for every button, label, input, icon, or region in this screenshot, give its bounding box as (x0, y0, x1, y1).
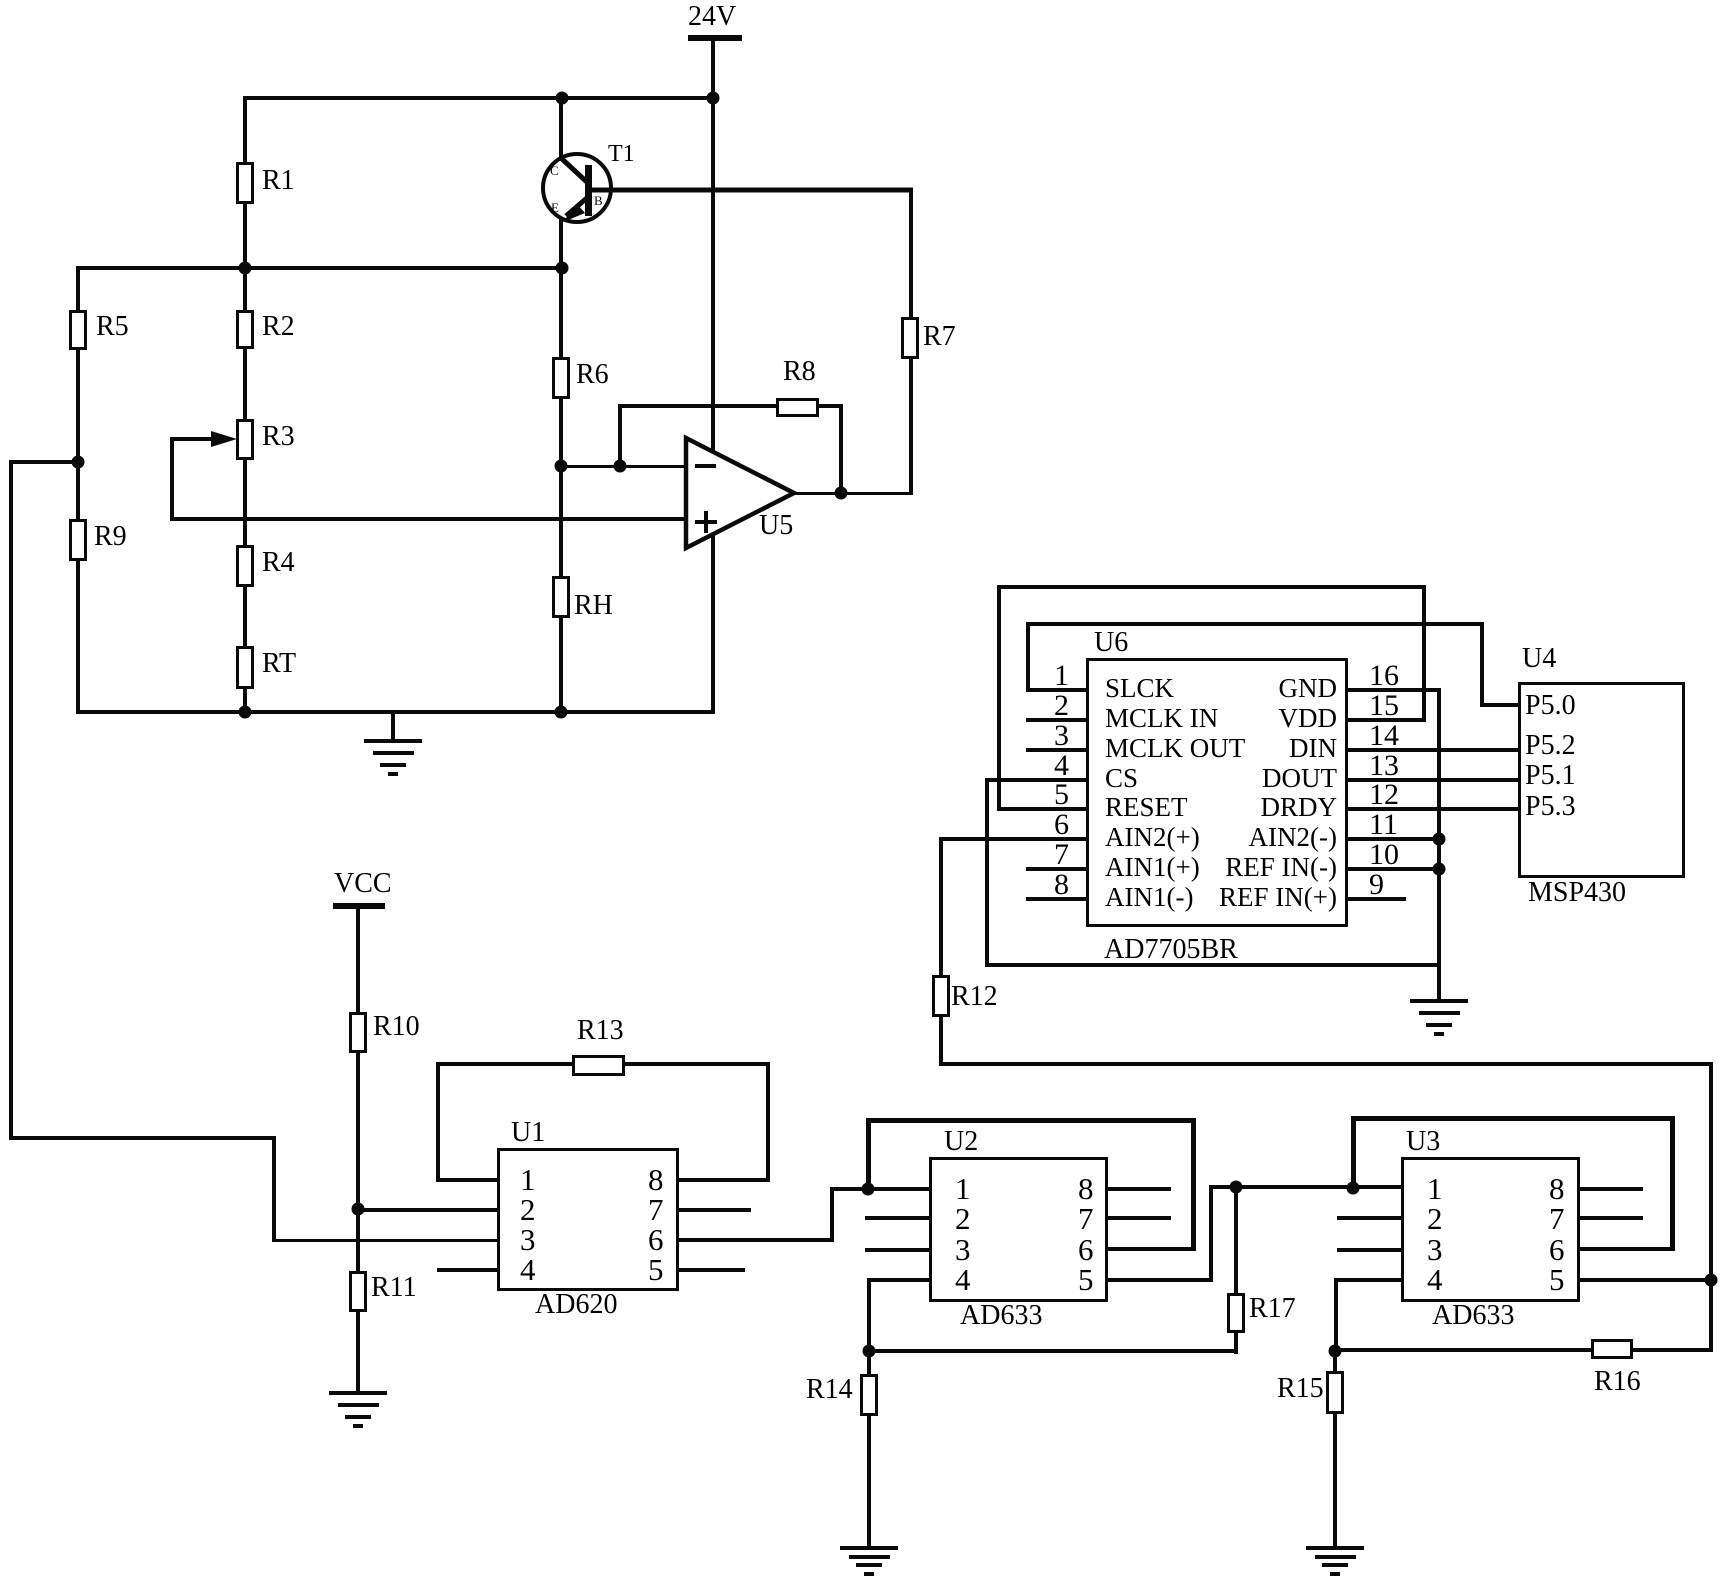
pin number U6-10 (1369, 840, 1399, 870)
wire main ground stem (391, 710, 395, 741)
wire U3 pin4 drop (1334, 1278, 1338, 1352)
pin number U2-5 (1078, 1264, 1094, 1295)
pin number U1-1 (520, 1164, 536, 1195)
label R9 (94, 523, 127, 551)
label VCC (334, 870, 392, 898)
resistor R16 (1591, 1339, 1633, 1359)
power symbol 24V bar (688, 35, 742, 41)
wire U3 pin2 stub (1337, 1216, 1403, 1220)
wire U2 pin4 (867, 1278, 931, 1282)
wire SLCK-P5.0 loop top (1026, 622, 1484, 626)
pin number U6-4 (1037, 751, 1069, 781)
svg-text:B: B (594, 193, 603, 208)
wire VDD loop right (1422, 585, 1426, 722)
wire R8 right leg (839, 404, 843, 495)
wire U3 pin6 (1578, 1247, 1674, 1251)
wire U1 pin2 (356, 1208, 499, 1212)
pin number U2-7 (1078, 1203, 1094, 1234)
pin number U6-7 (1037, 840, 1069, 870)
pin number U2-6 (1078, 1234, 1094, 1265)
IC body U2 AD633 (929, 1157, 1108, 1302)
wire DOUT to P5.1 (1347, 778, 1520, 782)
pin name P5.3 (1525, 793, 1576, 821)
wire op-amp output (794, 492, 913, 495)
pin number U1-5 (648, 1254, 664, 1285)
wire R13 loop right (766, 1062, 770, 1182)
wire U1 pin1 (436, 1178, 499, 1182)
label R8 (783, 358, 816, 386)
wire top rail 24V node (243, 96, 715, 100)
resistor R7 (901, 317, 919, 359)
resistor R5 (69, 310, 87, 350)
pin number U1-4 (520, 1254, 536, 1285)
wire CS to ground bus (985, 963, 1441, 967)
wire U6 pin9 stub (1347, 897, 1406, 901)
wire U3 pin4 (1334, 1278, 1403, 1282)
junction dot: node R1-R2 / second rail (239, 262, 252, 275)
op-amp U5 (686, 438, 794, 548)
wire feedback to R8 (618, 404, 779, 408)
wire U2 pin4 drop (867, 1278, 871, 1353)
resistor R15 (1326, 1371, 1344, 1414)
wire U2 pin8 stub (1106, 1187, 1171, 1191)
wire P5.0 loop right (1480, 622, 1484, 707)
label MSP430 (1528, 879, 1626, 907)
wire 24V rail down (711, 41, 715, 712)
wire U2 pin5 (1106, 1278, 1213, 1282)
junction dot: node R6-RH / inverting input (555, 460, 568, 473)
label 24V (688, 3, 736, 31)
wire to U1 pin3 (272, 1239, 499, 1242)
wire op-amp - input (561, 465, 688, 468)
label AD620 (535, 1291, 617, 1319)
label U2 (944, 1128, 978, 1156)
wire U6 pin11 AIN2- (1347, 837, 1441, 841)
wire R13 loop left (436, 1062, 440, 1182)
label AD7705BR (1104, 936, 1238, 964)
wire U6 ground branch (1437, 688, 1441, 1001)
wire to U2 pin1 (830, 1187, 931, 1191)
wire U6 pin4 CS (985, 778, 1088, 782)
pin number U2-4 (955, 1264, 971, 1295)
resistor R8 (776, 398, 819, 417)
pin number U6-9 (1369, 870, 1384, 900)
junction dot: node RH / ground rail (555, 706, 568, 719)
pin number U6-13 (1369, 751, 1399, 781)
resistor R4 (236, 545, 254, 587)
label RT (262, 650, 296, 678)
pin name U6 DOUT (1130, 765, 1337, 792)
svg-text:C: C (550, 163, 559, 178)
wire R6 RH branch (559, 268, 563, 714)
junction dot: node op-amp output / R8 (835, 487, 848, 500)
wire left bus to pin3 (272, 1136, 276, 1242)
label R12 (951, 983, 998, 1011)
wire SLCK loop left (1026, 622, 1030, 692)
junction dot: node T1 emitter / second rail (556, 262, 569, 275)
wire R3 wiper arm (170, 437, 217, 441)
pin name P5.2 (1525, 732, 1576, 760)
wire U3 pin7 stub (1578, 1216, 1643, 1220)
wire R5 R9 branch (76, 266, 80, 714)
label U3 (1406, 1128, 1440, 1156)
pin number U6-14 (1369, 721, 1399, 751)
potentiometer R3 wiper arrow (211, 431, 237, 447)
wire second rail (76, 266, 564, 270)
wire R16 row (1334, 1348, 1713, 1352)
pin number U6-6 (1037, 810, 1069, 840)
resistor R13 (572, 1055, 625, 1076)
ground U6 (1410, 999, 1468, 1003)
pin name U6 CS (1105, 765, 1138, 792)
wire U2 pin5 to U3 pin1 (1209, 1185, 1403, 1189)
pin number U6-1 (1037, 661, 1069, 691)
wire R2 R3 R4 RT branch (243, 266, 247, 714)
label U4 (1522, 645, 1556, 673)
label R7 (923, 323, 956, 351)
wire T1 emitter (559, 215, 563, 270)
wire U1 pin5 stub (677, 1268, 745, 1272)
label R2 (262, 313, 295, 341)
pin name U6 AIN2(-) (1130, 824, 1337, 851)
resistor R9 (69, 519, 87, 561)
junction dot: node R14 top (863, 1345, 876, 1358)
pin number U6-2 (1037, 691, 1069, 721)
resistor R14 (860, 1374, 878, 1416)
IC body U4 MSP430 (1518, 682, 1685, 878)
pin number U6-3 (1037, 721, 1069, 751)
pin name U6 MCLK OUT (1105, 735, 1245, 762)
wire R1 branch (243, 96, 247, 270)
wire U1 pin7 stub (677, 1208, 751, 1212)
wire R8 left leg (618, 404, 622, 468)
wire R7 branch (909, 188, 913, 495)
wire DIN to P5.2 (1347, 748, 1520, 752)
pin name U6 DIN (1130, 735, 1337, 762)
junction dot: node T1 collector / top rail (556, 92, 569, 105)
wire U6 pin3 stub (1026, 748, 1088, 752)
pin number U3-2 (1427, 1203, 1443, 1234)
IC body U1 AD620 (497, 1148, 679, 1291)
resistor RT (236, 646, 254, 689)
junction dot: node R17 top (1230, 1181, 1243, 1194)
pin number U6-11 (1369, 810, 1398, 840)
label U5 (759, 512, 793, 540)
label U1 (511, 1119, 545, 1147)
label R15 (1277, 1375, 1324, 1403)
pin number U6-8 (1037, 870, 1069, 900)
ground R11 (329, 1391, 387, 1395)
resistor R2 (236, 310, 254, 349)
label RH (574, 592, 613, 620)
wire U1 pin4 stub (437, 1268, 499, 1272)
pin name U6 AIN1(-) (1105, 884, 1193, 911)
junction dot: node 24V / top rail (707, 92, 720, 105)
wire U2 pin6 (1106, 1247, 1195, 1251)
wire R8 to output corner (816, 404, 843, 408)
pin number U6-5 (1037, 780, 1069, 810)
junction dot: node feedback / inverting input (614, 460, 627, 473)
wire U2 pin7 stub (1106, 1216, 1171, 1220)
wire U3 pin3 stub (1337, 1248, 1403, 1252)
wire U6 pin2 stub (1026, 718, 1088, 722)
wire U2 pin2 stub (865, 1216, 931, 1220)
wire R12 branch (939, 837, 943, 1066)
pin number U3-5 (1549, 1264, 1565, 1295)
wire U6 pin1 (1026, 688, 1088, 692)
wire left bus (9, 460, 13, 1140)
pin number U1-6 (648, 1224, 664, 1255)
wire U3 pin5 (1578, 1278, 1713, 1282)
pin number U3-1 (1427, 1173, 1443, 1204)
wire U3 pin8 stub (1578, 1187, 1643, 1191)
wire T1 collector (559, 96, 563, 161)
junction dot: node R15 top (1329, 1345, 1342, 1358)
label R16 (1594, 1368, 1641, 1396)
wire op-amp + input (170, 517, 688, 521)
pin number U3-3 (1427, 1234, 1443, 1265)
wire U6 pin5 RESET (997, 807, 1088, 811)
pin name U6 RESET (1105, 794, 1188, 821)
label R3 (262, 423, 295, 451)
pin number U1-3 (520, 1224, 536, 1255)
wire U6 pin6 AIN2+ (939, 837, 1088, 841)
pin number U6-16 (1369, 661, 1399, 691)
ground main (364, 739, 422, 743)
pin number U6-15 (1369, 691, 1399, 721)
pin number U3-6 (1549, 1234, 1565, 1265)
wire RESET-VDD loop top (997, 585, 1426, 589)
label R4 (262, 549, 295, 577)
resistor R1 (236, 162, 254, 204)
wire U2 pin3 stub (865, 1248, 931, 1252)
wire RESET loop left (997, 585, 1001, 811)
resistor R11 (349, 1271, 367, 1312)
wire U6 pin7 stub (1026, 867, 1088, 871)
label R1 (262, 167, 295, 195)
wire U3 pin1-pin6 loop top (1351, 1116, 1674, 1121)
wire U1 pin8 (677, 1178, 770, 1182)
label U6 (1094, 629, 1128, 657)
wire P5.0 entry (1480, 703, 1520, 707)
pin name U6 REF IN(-) (1130, 854, 1337, 881)
pin number U2-2 (955, 1203, 971, 1234)
pin number U1-7 (648, 1194, 664, 1225)
pin number U6-12 (1369, 780, 1399, 810)
wire node A to left bus (9, 460, 80, 464)
wire U3 loop left leg (1351, 1116, 1356, 1190)
wire R17 bottom to R14 (867, 1349, 1238, 1353)
junction dot: node AIN2- / ground branch (1433, 833, 1446, 846)
ground R14 (840, 1546, 898, 1550)
label T1 (608, 142, 635, 166)
pin name U6 AIN2(+) (1105, 824, 1200, 851)
potentiometer R3 body (236, 419, 254, 460)
wire U6 pin10 REFIN- (1347, 867, 1441, 871)
wire U1 pin6 riser (830, 1187, 834, 1242)
ground R15 (1306, 1546, 1364, 1550)
wire right outer bus (1709, 1062, 1713, 1352)
wire U6 pin15 VDD (1347, 718, 1426, 722)
wire bottom ground rail (76, 710, 715, 714)
wire U6 pin16 GND (1347, 688, 1441, 692)
wire R3 wiper down (170, 437, 174, 521)
transistor T1 (543, 154, 913, 222)
pin number U3-7 (1549, 1203, 1565, 1234)
wire U2 loop right leg (1191, 1118, 1196, 1251)
IC body U3 AD633 (1401, 1157, 1580, 1302)
label R11 (371, 1274, 417, 1302)
wire U2 pin5 riser (1209, 1185, 1213, 1282)
junction dot: node U3 pin5 / right bus (1705, 1274, 1718, 1287)
pin name U6 REF IN(+) (1130, 884, 1337, 911)
pin name U6 GND (1130, 675, 1337, 702)
power symbol VCC bar (333, 903, 385, 909)
wire U2 pin1-pin6 loop top (866, 1118, 1195, 1123)
junction dot: node REF IN- / ground branch (1433, 863, 1446, 876)
resistor R12 (932, 975, 950, 1017)
IC body U6 AD7705BR (1086, 658, 1348, 927)
pin number U3-4 (1427, 1264, 1443, 1295)
label AD633 U3 (1432, 1302, 1514, 1330)
pin number U2-1 (955, 1173, 971, 1204)
svg-text:E: E (551, 200, 559, 215)
wire U1 pin6 out (677, 1238, 834, 1242)
wire U2 loop left leg (866, 1118, 871, 1191)
pin name U6 AIN1(+) (1105, 854, 1200, 881)
resistor R6 (552, 357, 570, 399)
wire R17 branch (1234, 1185, 1238, 1354)
wire U3 loop right leg (1670, 1116, 1675, 1251)
wire CS down (985, 778, 989, 967)
junction dot: node U3 pin1 loop (1347, 1182, 1360, 1195)
wire R13 loop (436, 1062, 770, 1066)
pin number U1-2 (520, 1194, 536, 1225)
wire U6 pin8 stub (1026, 897, 1088, 901)
label R6 (576, 361, 609, 389)
wire R15 branch (1333, 1350, 1337, 1548)
pin number U2-3 (955, 1234, 971, 1265)
pin number U2-8 (1078, 1173, 1094, 1204)
label R13 (577, 1017, 624, 1045)
pin name U6 SLCK (1105, 675, 1174, 702)
pin name U6 DRDY (1130, 794, 1337, 821)
label R17 (1249, 1295, 1296, 1323)
pin name U6 VDD (1130, 705, 1337, 732)
junction dot: node R10-R11 / U1 pin2 (352, 1203, 365, 1216)
pin name P5.0 (1525, 692, 1576, 720)
pin name U6 MCLK IN (1105, 705, 1218, 732)
wire R14 branch (867, 1350, 871, 1548)
wire R12 to U3 bus (939, 1062, 1713, 1066)
junction dot: node RT / ground rail (239, 706, 252, 719)
label R14 (806, 1376, 853, 1404)
resistor RH (552, 576, 570, 618)
label R10 (373, 1013, 420, 1041)
junction dot: node U2 pin1 loop (862, 1183, 875, 1196)
label R5 (96, 313, 129, 341)
pin number U1-8 (648, 1164, 664, 1195)
wire left bus bottom jog (9, 1136, 276, 1140)
pin number U3-8 (1549, 1173, 1565, 1204)
wire DRDY to P5.3 (1347, 807, 1520, 811)
label AD633 U2 (960, 1302, 1042, 1330)
junction dot: node A R5-R9 / left bus (72, 456, 85, 469)
pin name P5.1 (1525, 762, 1576, 790)
resistor R10 (349, 1012, 367, 1053)
wire VCC branch (356, 909, 360, 1393)
resistor R17 (1227, 1293, 1245, 1333)
